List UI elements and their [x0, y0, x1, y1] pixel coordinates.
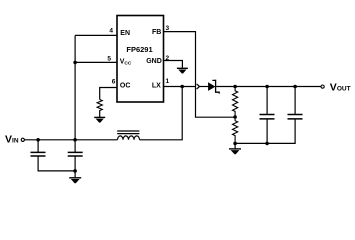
- VIN terminal circle: [21, 138, 24, 141]
- node FB divider junction: [233, 115, 237, 119]
- ground (feedback divider): [229, 149, 241, 154]
- node R1 top junction: [233, 85, 237, 89]
- capacitor C3 top lead: [266, 87, 268, 115]
- ground (input caps): [69, 178, 81, 183]
- ground (OC resistor): [94, 117, 105, 122]
- node C1/C2 ground junction: [73, 169, 77, 173]
- node C3 top junction: [265, 85, 269, 89]
- inductor L1 winding: [118, 136, 140, 140]
- capacitor C2 plates: [68, 152, 83, 156]
- resistor R1 (feedback upper): [233, 87, 238, 118]
- diode D1 cathode bar with schottky hooks: [212, 80, 219, 94]
- svg-text:5: 5: [107, 56, 111, 63]
- svg-text:VIN: VIN: [5, 134, 19, 146]
- capacitor C1 bottom lead: [38, 156, 75, 171]
- wire R3 to ground: [99, 111, 101, 117]
- svg-text:OC: OC: [120, 83, 130, 90]
- node R2/output-caps ground junction: [233, 142, 237, 146]
- wire R2 junction to ground: [234, 143, 236, 148]
- resistor R3 (OC set): [97, 100, 102, 112]
- wire hop to diode: [200, 86, 209, 88]
- wire OC pin: [100, 88, 117, 100]
- wire VIN rail to inductor: [25, 139, 118, 141]
- capacitor C4 top lead: [294, 87, 296, 115]
- wire LX pin to FB crossing: [164, 86, 196, 88]
- node VCC junction: [73, 61, 77, 65]
- wire output caps bottom rail: [235, 119, 295, 143]
- svg-text:1: 1: [166, 78, 170, 85]
- VOUT terminal circle: [321, 85, 324, 88]
- wire left vertical (EN/VCC/VIN tie): [74, 35, 76, 152]
- node VIN/C1 junction: [36, 138, 40, 142]
- svg-text:2: 2: [166, 55, 170, 62]
- capacitor C1 plates: [31, 152, 46, 156]
- capacitor C1 top lead: [37, 140, 39, 152]
- wire VCC pin: [75, 61, 117, 63]
- wire FB pin to divider: [164, 32, 236, 118]
- capacitor C3 plates: [260, 115, 275, 119]
- capacitor C3 bottom lead: [266, 119, 268, 143]
- svg-text:LX: LX: [152, 83, 161, 90]
- svg-text:4: 4: [109, 28, 113, 35]
- resistor R2 (feedback lower): [233, 117, 238, 143]
- svg-text:GND: GND: [146, 58, 162, 65]
- diode D1 (schottky) anode triangle: [208, 83, 214, 91]
- node VIN/C2/EN-vertical junction: [73, 138, 77, 142]
- node C4 top junction: [293, 85, 297, 89]
- node LX/inductor junction: [180, 85, 184, 89]
- capacitor C4 plates: [288, 115, 303, 119]
- wire GND pin: [164, 61, 183, 68]
- svg-text:VOUT: VOUT: [330, 82, 351, 94]
- ground (GND pin): [177, 68, 188, 73]
- capacitor C2 bottom lead: [74, 156, 76, 177]
- node C3 bottom junction: [265, 142, 269, 146]
- op-amp U1 FP6291 IC body: [117, 16, 164, 103]
- svg-text:FB: FB: [152, 29, 161, 36]
- wire diode to VOUT rail: [216, 86, 321, 88]
- svg-text:EN: EN: [120, 30, 130, 37]
- svg-text:6: 6: [112, 79, 116, 86]
- inductor L1 core bars: [117, 131, 139, 134]
- wire hop chevron on LX wire: [197, 84, 200, 89]
- svg-text:FP6291: FP6291: [126, 45, 152, 54]
- wire EN pin to left vertical: [75, 34, 117, 36]
- wire inductor to LX vertical: [140, 87, 183, 140]
